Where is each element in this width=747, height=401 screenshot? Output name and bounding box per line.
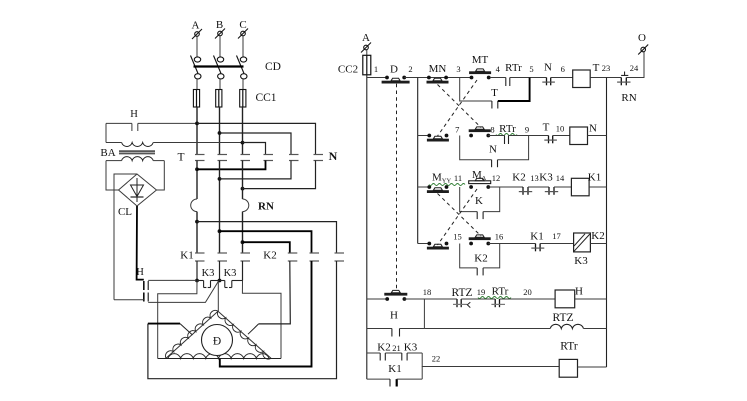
svg-text:T: T <box>177 152 184 164</box>
wire rung1 D to MT <box>404 77 472 79</box>
svg-text:K3: K3 <box>202 268 215 279</box>
wire B to N pole 2 top <box>220 133 292 155</box>
wire phase B fuse to T contact <box>219 107 221 155</box>
svg-text:K2: K2 <box>377 342 390 354</box>
svg-text:3: 3 <box>456 64 460 74</box>
label RTr rung5 <box>478 286 511 299</box>
svg-text:Đ: Đ <box>213 336 221 348</box>
junction dot A lower <box>195 167 199 171</box>
label 2 <box>408 64 412 74</box>
junction dot B <box>218 131 222 135</box>
label CC1 <box>255 92 276 104</box>
svg-text:17: 17 <box>552 231 561 241</box>
svg-text:T: T <box>491 87 498 99</box>
wire A below K1 <box>196 261 198 281</box>
svg-text:15: 15 <box>453 232 462 242</box>
junction dot B to K2 feed <box>218 229 222 233</box>
wire RN to O terminal <box>626 52 644 78</box>
wire riser 18 <box>423 299 425 329</box>
label T coil <box>593 62 600 74</box>
label K2 coil <box>591 230 604 242</box>
thermal relay RN element A <box>191 199 197 212</box>
svg-text:CC2: CC2 <box>338 64 358 76</box>
label 24 <box>630 63 639 73</box>
junction dot A / H wire <box>195 122 199 126</box>
transformer BA secondary <box>106 157 164 161</box>
svg-text:K1: K1 <box>180 250 193 262</box>
label H coil <box>575 286 583 298</box>
svg-text:18: 18 <box>423 287 432 297</box>
wire 22 to RTr coil <box>422 353 559 367</box>
wire dropper <box>417 78 419 244</box>
label T rung2 <box>543 122 550 134</box>
pushbutton M_delta <box>469 178 491 189</box>
svg-text:CC1: CC1 <box>255 92 276 104</box>
svg-text:K3: K3 <box>574 255 588 267</box>
svg-text:RN: RN <box>621 92 636 104</box>
wire B below K1 <box>219 261 221 281</box>
node A control terminal <box>361 32 371 53</box>
svg-text:K2: K2 <box>512 172 525 184</box>
contact H holding <box>367 329 425 337</box>
label 10 <box>556 124 565 134</box>
label 19 <box>477 287 486 297</box>
svg-text:5: 5 <box>529 64 533 74</box>
svg-text:4: 4 <box>496 64 501 74</box>
wire A below RN <box>196 212 198 253</box>
label M_delta <box>472 169 486 182</box>
contactor K2 pole 1 <box>288 253 298 261</box>
label MN <box>429 63 447 75</box>
label H relay contact <box>390 310 398 322</box>
wire N pole1 bottom to A <box>197 161 266 170</box>
wire H to N pole 3 top <box>197 123 316 154</box>
wire rung2 to N coil <box>553 135 570 137</box>
wire phase C fuse to T contact <box>242 107 244 155</box>
label 12 <box>492 173 501 183</box>
wire CL to H pole2 <box>114 299 144 301</box>
transformer BA primary <box>106 143 153 147</box>
contact RTr NC (rung5) <box>491 299 505 307</box>
svg-text:K2: K2 <box>591 230 604 242</box>
contact K2 holding branch <box>460 244 500 276</box>
svg-text:11: 11 <box>454 173 462 183</box>
wire rung4 mid <box>488 243 535 245</box>
wire rung4 right <box>590 243 606 245</box>
wire B switch to fuse <box>219 79 221 90</box>
pushbutton rung4 left (15) <box>427 242 449 250</box>
contact K2 NC (rung3) <box>519 187 532 195</box>
label T holding <box>491 87 498 99</box>
label 3 <box>456 64 460 74</box>
label RTr rung1 <box>505 62 522 74</box>
junction dot C to K2 feed <box>241 240 245 244</box>
label 9 <box>525 125 529 135</box>
contact RTr timed (rung1) <box>490 78 530 87</box>
svg-text:T: T <box>593 62 600 74</box>
svg-text:14: 14 <box>556 173 565 183</box>
wire node 21 <box>385 352 402 354</box>
label 22 <box>432 354 441 364</box>
wire H pole2 to node B <box>148 281 218 302</box>
svg-text:K1: K1 <box>588 172 601 184</box>
svg-text:B: B <box>216 19 223 31</box>
label M_YY <box>429 172 465 186</box>
label K3 left <box>202 268 215 279</box>
svg-text:K3: K3 <box>404 342 418 354</box>
svg-text:H: H <box>390 310 398 322</box>
wire terminal to CC2 <box>366 50 368 56</box>
wire C to N pole 1 top <box>243 143 266 155</box>
pushbutton rung2 left <box>427 134 449 142</box>
wire rung3 mid <box>488 186 523 188</box>
wire node C to motor terminal 3 <box>242 281 281 359</box>
svg-text:K1: K1 <box>388 363 401 375</box>
contactor N pole 3 <box>314 155 324 161</box>
node C supply terminal <box>238 19 248 39</box>
contact T holding branch <box>460 78 530 109</box>
wire BA primary left riser <box>105 123 107 142</box>
wire C to K2 pole1 top <box>243 242 290 253</box>
coil T <box>573 70 591 88</box>
wire node row B-C <box>220 280 243 282</box>
svg-text:N: N <box>489 144 497 156</box>
mech link dashed D <box>396 84 398 291</box>
wire motor left tap <box>148 324 193 335</box>
svg-text:20: 20 <box>523 287 532 297</box>
wire B below T <box>219 161 221 254</box>
contactor K3 contact left <box>204 281 211 288</box>
label 20 <box>523 287 532 297</box>
wire rung5 left <box>367 298 388 300</box>
contactor K2 pole 2 <box>310 253 320 261</box>
coil K2/K3 <box>574 233 591 252</box>
wire K1 branch riser <box>421 367 423 380</box>
label 13 <box>530 173 539 183</box>
label 8 <box>490 125 494 135</box>
label 16 <box>495 232 504 242</box>
svg-text:RTr: RTr <box>560 341 578 353</box>
svg-text:21: 21 <box>392 343 401 353</box>
label N holding <box>489 144 497 156</box>
svg-text:RTr: RTr <box>505 62 522 74</box>
contact K1 (RTr circuit) <box>367 379 422 386</box>
wire rung3 right <box>589 186 606 188</box>
wire rung3 to K1 coil <box>554 186 571 188</box>
mech link MN-MT cross <box>438 80 482 136</box>
pushbutton D (stop, NC) <box>382 76 410 84</box>
wire K2 pole2 to motor bottom tap <box>220 261 312 367</box>
wire to RTZ coil <box>424 328 550 330</box>
motor D winding base <box>168 354 269 359</box>
svg-text:BA: BA <box>100 147 115 159</box>
contact RTr timed (rung2) <box>488 136 548 145</box>
thermal relay RN element C <box>243 199 249 212</box>
wire rung5 RTZ-RTr <box>461 298 495 300</box>
pushbutton D lower (18) <box>384 290 407 301</box>
label K2 (contactor) <box>263 250 276 262</box>
junction dot B lower <box>218 177 222 181</box>
svg-text:H: H <box>136 267 144 278</box>
junction dot node A end <box>195 279 199 283</box>
wire C below T <box>242 161 244 200</box>
junction dot A to K2 feed <box>195 220 199 224</box>
wire rung4 to K2 coil <box>540 243 574 245</box>
label K1 rung4 <box>530 231 543 243</box>
pushbutton MN <box>427 76 449 84</box>
wire K2 pole3 to motor left tap <box>148 261 337 379</box>
label T (contactor) <box>177 152 184 164</box>
contactor K1 pole 1 <box>195 253 205 261</box>
wire rung1 T coil to RN <box>590 77 621 79</box>
wire RTZ coil right <box>584 328 607 330</box>
svg-text:23: 23 <box>602 63 611 73</box>
label 18 <box>423 287 432 297</box>
svg-text:C: C <box>239 19 246 31</box>
label 14 <box>556 173 565 183</box>
wire phase A fuse to T contact <box>196 107 198 155</box>
svg-text:N: N <box>544 62 552 74</box>
contact H top <box>106 123 196 131</box>
svg-text:H: H <box>575 286 583 298</box>
svg-text:8: 8 <box>490 125 494 135</box>
wire K2 pole1 to motor right tap <box>248 261 290 334</box>
wire rung3 left <box>418 186 429 188</box>
label BA <box>100 147 115 159</box>
svg-text:N: N <box>329 149 338 163</box>
label D motor <box>213 336 221 348</box>
rectifier CL diode <box>131 178 144 202</box>
svg-text:7: 7 <box>455 125 459 135</box>
wire left bus <box>366 75 368 379</box>
label K3 rung3 <box>539 172 553 184</box>
svg-text:RTZ: RTZ <box>552 312 573 324</box>
svg-text:K2: K2 <box>263 250 276 262</box>
svg-text:9: 9 <box>525 125 529 135</box>
svg-text:1: 1 <box>374 64 378 74</box>
svg-text:16: 16 <box>495 232 504 242</box>
label 6 <box>561 64 565 74</box>
svg-text:19: 19 <box>477 287 486 297</box>
contact K3 (RTr circuit) <box>402 353 422 361</box>
svg-text:10: 10 <box>556 124 565 134</box>
wire B to K2 pole2 top <box>220 231 312 253</box>
label CL <box>118 206 132 218</box>
label MT <box>472 54 489 66</box>
wire CL top output <box>114 174 137 300</box>
label RN (thermal relay) <box>258 201 274 213</box>
svg-text:24: 24 <box>630 63 639 73</box>
pushbutton rung4 right (16) <box>469 235 491 246</box>
coil RTr <box>559 359 577 377</box>
label N coil <box>589 123 597 135</box>
svg-text:RTr: RTr <box>492 286 509 298</box>
contact K3 NC (rung3) <box>545 187 558 195</box>
wire node B to motor apex <box>217 281 219 312</box>
wire rung1 left <box>367 77 387 79</box>
svg-text:MN: MN <box>429 63 447 75</box>
wire rung2 right <box>588 135 607 137</box>
label RTZ rung5 <box>451 287 472 299</box>
coil N <box>570 127 588 145</box>
wire rung4 left <box>418 243 429 245</box>
node B supply terminal <box>215 19 225 39</box>
wire rung5 to H coil <box>500 298 556 300</box>
svg-text:K2: K2 <box>474 253 487 265</box>
wire rung2 left <box>418 135 429 137</box>
contact N holding branch <box>460 136 529 168</box>
label K3 right <box>224 268 237 279</box>
wire rung1 to T coil <box>551 77 573 79</box>
label H (brake contact bottom) <box>136 267 144 278</box>
wire N pole3 bottom to C <box>243 161 316 189</box>
label K2 bottom <box>377 342 390 354</box>
transformer BA core <box>119 151 155 153</box>
label H (brake contact top) <box>130 109 138 120</box>
wire CL bottom output <box>137 206 144 280</box>
wire N pole2 bottom to B <box>220 161 292 179</box>
svg-text:K: K <box>475 195 483 207</box>
label 5 <box>529 64 533 74</box>
label D button <box>390 64 398 76</box>
svg-text:H: H <box>130 109 138 120</box>
node A supply terminal <box>192 20 202 40</box>
wire A terminal to switch <box>196 37 198 58</box>
contact K2 (RTr circuit) <box>367 353 386 361</box>
svg-text:O: O <box>638 32 646 44</box>
label K1 (contactor) <box>180 250 193 262</box>
switch CD (3-pole knife switch) <box>191 56 248 79</box>
svg-text:6: 6 <box>561 64 565 74</box>
label 17 <box>552 231 561 241</box>
svg-text:D: D <box>390 64 398 76</box>
pushbutton M_YY <box>427 185 449 193</box>
wire BA primary right to C <box>153 142 242 144</box>
pushbutton rung2 right (8) <box>469 127 491 138</box>
wire C terminal to switch <box>242 36 244 57</box>
label K2 holding <box>474 253 487 265</box>
rectifier CL diamond <box>119 174 157 206</box>
wire BA secondary right to CL <box>157 161 165 190</box>
label K holding <box>475 195 483 207</box>
svg-text:K1: K1 <box>530 231 543 243</box>
junction dot C lower <box>241 187 245 191</box>
wire rung3 k2-k3 <box>528 186 549 188</box>
wire C below RN <box>242 212 244 253</box>
label 7 <box>455 125 459 135</box>
coil K1 <box>571 178 589 196</box>
fuse CC1 (3x) <box>193 90 246 108</box>
contact N NC (rung1) <box>542 78 555 86</box>
contactor T pole 1 <box>195 155 205 161</box>
motor D winding left side <box>165 310 218 358</box>
wire rung5 button to RTZ <box>404 298 457 300</box>
label RN control <box>621 92 636 104</box>
label K1 coil <box>588 172 601 184</box>
label K1 bottom <box>388 363 401 375</box>
contactor K1 pole 3 <box>241 253 251 261</box>
wire A to K2 pole3 top <box>197 222 337 253</box>
svg-text:MT: MT <box>472 54 489 66</box>
svg-text:RN: RN <box>258 201 274 213</box>
label K3 bottom <box>404 342 418 354</box>
contact K1 NC (rung4) <box>531 244 544 252</box>
motor D winding right side <box>217 311 271 359</box>
wire node A to motor terminal 1 <box>158 281 197 359</box>
label CC2 <box>338 64 358 76</box>
wire B terminal to switch <box>219 36 221 57</box>
svg-text:A: A <box>192 20 200 32</box>
wire A below T <box>196 161 198 200</box>
wire C below K1 <box>242 261 244 281</box>
node O supply terminal <box>638 32 648 55</box>
contact T NC (rung2) <box>544 136 557 144</box>
label RTr coil <box>560 341 578 353</box>
label N (contactor) <box>329 149 338 163</box>
junction dot C / BA wire <box>241 141 245 145</box>
wire BA secondary left to CL <box>106 161 119 190</box>
contactor K3 contact right <box>225 281 232 288</box>
svg-text:N: N <box>589 123 597 135</box>
label K3 coil <box>574 255 588 267</box>
label 15 <box>453 232 462 242</box>
contactor T pole 2 <box>218 155 228 161</box>
svg-text:RTZ: RTZ <box>451 287 472 299</box>
contactor K1 pole 2 <box>218 253 228 261</box>
svg-text:12: 12 <box>492 173 501 183</box>
label 4 <box>496 64 501 74</box>
wire rung1 5 to N <box>530 77 547 79</box>
wire node row A-B <box>197 280 220 282</box>
wire C switch to fuse <box>242 79 244 90</box>
motor D base line <box>158 358 281 360</box>
contact K holding branch <box>460 187 500 219</box>
label 1 <box>374 64 378 74</box>
svg-text:22: 22 <box>432 354 441 364</box>
contactor K2 pole 3 <box>335 253 345 261</box>
svg-text:2: 2 <box>408 64 412 74</box>
label 11 <box>454 173 462 183</box>
contact RN NC <box>617 72 630 86</box>
coil RTZ inductor <box>550 324 583 328</box>
svg-text:RTr: RTr <box>499 123 516 135</box>
mech link M_YY-M_delta cross <box>438 189 482 245</box>
wire rung5 right <box>575 298 607 300</box>
contact RTZ NC timed <box>453 299 470 308</box>
pushbutton MT <box>469 69 491 80</box>
contact H pole1 <box>144 281 148 290</box>
svg-text:T: T <box>543 122 550 134</box>
label RTZ coil <box>552 312 573 324</box>
svg-text:K3: K3 <box>224 268 237 279</box>
wire A switch to fuse <box>196 79 198 90</box>
svg-text:CL: CL <box>118 206 132 218</box>
motor D circle <box>202 325 233 356</box>
label K2 rung3 <box>512 172 525 184</box>
wire right bus <box>606 78 608 368</box>
label N rung1 <box>544 62 552 74</box>
contact H pole2 <box>144 293 148 302</box>
contactor T pole 3 <box>241 155 251 161</box>
contactor N pole 1 <box>264 155 274 161</box>
contactor N pole 2 <box>289 155 299 161</box>
coil H <box>555 290 575 308</box>
junction dot node B end <box>218 279 222 283</box>
label 23 <box>602 63 611 73</box>
label 21 <box>392 343 401 353</box>
label RTr rung2 <box>496 123 517 136</box>
wire RTr coil right <box>578 366 607 368</box>
